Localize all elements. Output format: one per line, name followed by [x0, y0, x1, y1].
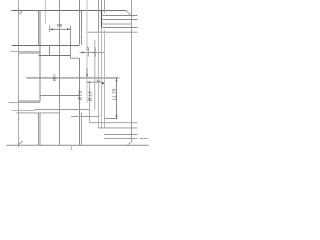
dimension line 11.75	[116, 78, 118, 119]
bushing wall 2 top	[101, 0, 103, 10]
grid bottom edge	[39, 55, 71, 57]
thread line bottom 4	[104, 138, 137, 140]
thread line bottom 3	[104, 134, 137, 136]
thread line top 2	[103, 19, 138, 21]
vertical light x87	[86, 0, 88, 103]
vertical x89.5	[89, 82, 91, 123]
left wall bottom outer	[38, 113, 40, 146]
leader line with arrow	[87, 81, 102, 83]
left boss top edge 1	[10, 50, 40, 52]
bushing wall 3 top	[104, 0, 106, 13]
top horizontal edge H0	[11, 9, 126, 11]
bushing wall 2 bottom	[101, 28, 103, 129]
center axis vertical	[59, 0, 61, 145]
thread line bottom 1	[90, 122, 138, 124]
right wall inner bottom	[81, 113, 83, 146]
mid horizontal lower	[40, 95, 79, 97]
bore line top	[87, 31, 137, 33]
extension line 2 dim left	[88, 48, 90, 57]
bushing wall 1 bottom	[98, 32, 100, 128]
thread dash bottom right	[140, 138, 149, 140]
right end vertical edge	[131, 0, 133, 142]
long edge x70	[70, 26, 72, 58]
thread line top 1	[103, 15, 138, 17]
tick bottom V1	[19, 141, 23, 145]
bottom-right chamfer	[127, 142, 131, 146]
centerline V1 left view	[18, 0, 20, 147]
extension line x94.3	[94, 40, 96, 110]
dimension line 2	[80, 52, 106, 54]
left boss top edge 2	[19, 52, 40, 54]
svg-text:Ø20: Ø20	[78, 90, 83, 100]
bottom-left light edge	[12, 109, 35, 111]
step horizontal	[71, 57, 80, 59]
grid divider 1	[49, 46, 51, 56]
bottom-left double edge 1	[19, 100, 40, 102]
leader dark segment with down arrow	[86, 68, 88, 77]
bottom mid horizontal	[17, 112, 60, 114]
extension line Ø8 left	[48, 25, 50, 31]
thread line bottom 2	[98, 127, 137, 129]
bushing wall 1 top	[98, 0, 100, 32]
dimension line Ø8	[49, 28, 70, 30]
thread line top 4	[103, 27, 138, 29]
tick below bottom	[70, 146, 72, 150]
bushing wall 3 bottom	[104, 30, 106, 128]
left wall bottom inner	[39, 113, 41, 146]
grid top edge	[12, 45, 80, 47]
left wall inner	[39, 11, 41, 102]
bushing wall 2 dark segment	[101, 10, 103, 27]
tick top V1	[19, 11, 22, 14]
bottom edge	[6, 144, 148, 146]
right wall inner top	[81, 11, 83, 45]
svg-text:Ø8: Ø8	[57, 22, 63, 27]
svg-text:Ø21: Ø21	[52, 74, 56, 81]
svg-text:11.75: 11.75	[111, 88, 116, 100]
thread line top 3	[103, 23, 132, 25]
right wall outer	[79, 0, 81, 45]
extension line V2	[44, 0, 46, 24]
left wall outer	[38, 11, 40, 46]
mid horizontal bore	[27, 77, 120, 79]
bottom mid horizontal 2	[71, 116, 99, 118]
svg-text:Ø16: Ø16	[88, 91, 93, 102]
small right arrow at leader end	[102, 82, 105, 85]
junction up arrow on wall	[97, 78, 100, 81]
top-right chamfer	[126, 11, 131, 16]
extension line 2 dim right	[95, 48, 97, 57]
bottom-left double edge 2	[9, 101, 40, 103]
mid-low horizontal right part	[35, 109, 90, 111]
dim ref bottom	[104, 118, 117, 120]
